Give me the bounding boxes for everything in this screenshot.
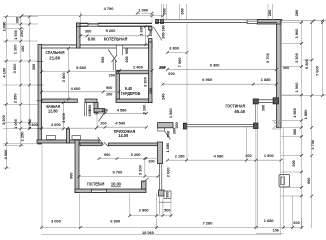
wall: right exterior	[277, 20, 282, 128]
svg-text:7 560: 7 560	[178, 57, 182, 67]
svg-text:СПАЛЬНАЯ: СПАЛЬНАЯ	[46, 50, 65, 55]
top-right dim line	[281, 20, 326, 22]
wall: bath north door jamb piece	[85, 99, 97, 103]
svg-text:2 000: 2 000	[166, 167, 170, 177]
svg-text:1 000: 1 000	[28, 119, 32, 129]
svg-text:200: 200	[159, 66, 165, 70]
door: bath entry	[99, 113, 105, 122]
svg-text:100: 100	[21, 46, 25, 52]
svg-text:4 000: 4 000	[51, 123, 61, 127]
step lines	[159, 201, 172, 203]
porch: entry step box right	[279, 175, 290, 188]
wall: living-room top thin double line	[156, 19, 278, 21]
svg-text:4 600: 4 600	[71, 87, 81, 91]
window: boiler room top	[88, 22, 98, 27]
dim line: 4600 row	[42, 91, 120, 93]
door partition: corridor closet	[112, 60, 114, 70]
svg-text:2 350: 2 350	[14, 94, 18, 104]
wall: boiler-room left exterior	[77, 23, 81, 48]
svg-text:200: 200	[100, 122, 106, 126]
window: living room top	[247, 20, 258, 24]
svg-text:4 790: 4 790	[104, 7, 114, 11]
svg-text:1 930: 1 930	[14, 30, 18, 40]
wall: bath/wardrobe north	[42, 99, 78, 103]
door jamb: hallway east	[158, 128, 165, 131]
wall: bath south exterior	[37, 140, 99, 143]
extension line x97 hallway west	[96, 104, 98, 128]
dim line: bath height 3600	[62, 103, 64, 129]
door: guest east	[143, 178, 149, 182]
svg-text:200: 200	[175, 122, 179, 128]
svg-text:600: 600	[88, 110, 92, 116]
dim line: hallway 4590	[97, 126, 147, 128]
wall: boiler-room top-left corner	[77, 23, 81, 27]
svg-text:3 300: 3 300	[143, 77, 147, 87]
svg-text:3 190: 3 190	[143, 105, 147, 115]
svg-text:ГАРДЕРОБ: ГАРДЕРОБ	[121, 91, 140, 96]
svg-text:2 800: 2 800	[139, 209, 149, 213]
svg-text:4 080: 4 080	[214, 154, 224, 158]
svg-text:2 180: 2 180	[175, 154, 185, 158]
svg-text:8.00: 8.00	[88, 37, 96, 42]
svg-text:3 300: 3 300	[138, 165, 142, 175]
svg-text:950: 950	[101, 57, 105, 63]
svg-text:ГОСТЕВАЯ: ГОСТЕВАЯ	[87, 181, 105, 186]
step box near guest SE	[164, 191, 171, 199]
svg-text:4 190: 4 190	[2, 68, 6, 78]
dim line: boiler 5200	[81, 35, 149, 37]
svg-text:900: 900	[167, 131, 171, 137]
svg-text:900: 900	[69, 173, 73, 179]
dim line: guest 900/3200	[99, 158, 158, 160]
fixture: bath WC	[47, 136, 56, 140]
svg-text:360: 360	[162, 8, 166, 14]
svg-text:12.80: 12.80	[48, 108, 58, 113]
svg-text:380: 380	[15, 17, 19, 23]
window: guest east thin double line	[159, 164, 161, 191]
bottom dim row total	[41, 234, 281, 236]
svg-text:900: 900	[106, 86, 112, 90]
lintel: living room east niche	[258, 99, 274, 101]
wall: hallway south	[109, 143, 161, 146]
bottom ext lines	[41, 145, 43, 229]
svg-text:10.00: 10.00	[111, 181, 121, 186]
bottom dim row 2800/500	[130, 215, 172, 217]
dim line: bedroom width 5680	[42, 71, 120, 73]
svg-text:1 000: 1 000	[14, 119, 18, 129]
svg-text:3 200: 3 200	[131, 153, 141, 157]
svg-text:4 580: 4 580	[117, 108, 127, 112]
svg-text:3 750: 3 750	[311, 140, 315, 150]
dim line: living 6960	[163, 83, 277, 85]
left margin chain lines	[5, 17, 7, 168]
svg-text:900: 900	[125, 48, 129, 54]
svg-text:9 700: 9 700	[113, 170, 123, 174]
svg-text:9 300: 9 300	[210, 63, 220, 67]
svg-text:3 060: 3 060	[4, 150, 8, 160]
beam: hallway to living room opening	[187, 124, 255, 126]
svg-text:3 300: 3 300	[295, 53, 299, 63]
svg-text:200: 200	[172, 128, 176, 134]
wall: top-right post b	[161, 20, 164, 24]
wall: small stub right of bath door	[94, 103, 98, 114]
wall: hallway SE corner	[158, 142, 163, 164]
svg-text:1 560: 1 560	[293, 108, 297, 118]
post niche left	[253, 99, 258, 104]
wall: boiler-room right lower	[149, 39, 153, 49]
wall: boiler-room right	[149, 27, 153, 31]
svg-text:6 960: 6 960	[202, 78, 212, 82]
wall: wardrobe north	[116, 70, 152, 74]
svg-text:300: 300	[245, 154, 251, 158]
svg-text:3 300: 3 300	[2, 115, 6, 125]
dim line: living 3800	[168, 52, 188, 54]
column at beam west	[183, 123, 187, 129]
wall: top-right pier right	[257, 20, 281, 25]
svg-text:1 630: 1 630	[139, 26, 143, 36]
column at beam east	[254, 123, 259, 129]
wall: top-right post a	[156, 20, 159, 24]
svg-text:21.80: 21.80	[49, 55, 60, 60]
window: bath left wall sill marks	[37, 100, 44, 102]
wall: guest west exterior	[75, 140, 79, 193]
svg-text:1 880: 1 880	[304, 110, 308, 120]
svg-text:156: 156	[273, 229, 279, 233]
extension line x187 long	[186, 24, 188, 162]
wall: guest east stub	[142, 181, 147, 189]
dim line: mid row	[168, 159, 282, 161]
svg-text:600: 600	[293, 221, 299, 225]
svg-text:1 900: 1 900	[138, 9, 148, 13]
wall: bath inner partition	[67, 129, 70, 143]
bottom dim row main	[41, 226, 302, 228]
svg-text:200: 200	[149, 30, 153, 36]
dim line: hallway 4580	[97, 112, 147, 114]
svg-text:300: 300	[125, 56, 129, 62]
svg-text:300: 300	[161, 32, 165, 38]
svg-text:1 880: 1 880	[261, 78, 271, 82]
svg-text:300: 300	[31, 123, 37, 127]
wall: wardrobe south	[116, 99, 152, 103]
left margin tick rows	[3, 16, 38, 18]
svg-text:380: 380	[293, 129, 297, 135]
line: niche post down	[255, 104, 257, 123]
svg-text:500: 500	[164, 209, 170, 213]
svg-text:1 980: 1 980	[2, 22, 6, 32]
svg-text:1 900: 1 900	[264, 154, 274, 158]
svg-text:180: 180	[161, 25, 165, 31]
svg-text:6 900: 6 900	[110, 219, 120, 223]
svg-text:3 000: 3 000	[51, 219, 61, 223]
svg-text:900: 900	[104, 153, 110, 157]
wall: step end block	[159, 190, 165, 196]
svg-text:5 200: 5 200	[106, 29, 116, 33]
dim line: wardrobe 2400	[120, 70, 153, 72]
wall: boiler-room top exterior double	[80, 22, 152, 24]
svg-text:200: 200	[149, 88, 153, 94]
wall: bedroom/boiler south double-line wall	[38, 44, 152, 46]
svg-text:1 250: 1 250	[20, 132, 24, 142]
door: bedroom/corridor to boiler diag	[108, 50, 117, 63]
svg-text:300: 300	[165, 192, 169, 198]
fixture: bath sink	[72, 136, 81, 140]
extension line x246.5	[246, 127, 248, 160]
post niche right	[273, 98, 278, 104]
svg-text:300: 300	[148, 160, 154, 164]
svg-text:100: 100	[106, 92, 112, 96]
svg-text:1 100: 1 100	[14, 45, 18, 55]
hatch: wall corner below beam	[273, 121, 282, 130]
svg-text:1 680: 1 680	[166, 143, 170, 153]
wall: guest north left piece	[80, 143, 102, 146]
svg-text:300: 300	[85, 29, 91, 33]
svg-text:280: 280	[295, 10, 299, 16]
dim line: bedroom height	[68, 48, 70, 99]
svg-text:6 800: 6 800	[305, 59, 309, 69]
wall: stub toward hallway	[94, 109, 105, 113]
svg-text:1 800: 1 800	[295, 29, 299, 39]
top ext lines	[80, 12, 82, 23]
wall: hallway NE piece	[158, 123, 173, 128]
svg-text:1 680: 1 680	[264, 219, 274, 223]
svg-text:КОТЕЛЬНАЯ: КОТЕЛЬНАЯ	[104, 37, 128, 42]
svg-text:2 400: 2 400	[133, 65, 143, 69]
svg-text:1 900: 1 900	[295, 83, 299, 93]
dim vline boiler right	[144, 27, 146, 45]
wall: wardrobe west	[116, 74, 120, 99]
svg-text:3 800: 3 800	[169, 46, 179, 50]
svg-text:18 060: 18 060	[142, 231, 154, 235]
svg-text:200: 200	[102, 108, 108, 112]
dim line: bath width 4000	[42, 127, 97, 129]
door: boiler room east	[154, 27, 163, 41]
svg-text:300: 300	[261, 105, 265, 111]
wall: wardrobe east	[149, 42, 153, 103]
svg-text:4 590: 4 590	[115, 122, 125, 126]
svg-text:1 560: 1 560	[169, 108, 173, 118]
svg-text:300: 300	[32, 64, 36, 70]
svg-text:3 600: 3 600	[13, 64, 17, 74]
right margin chain lines	[300, 21, 302, 228]
door: hallway to living	[165, 131, 171, 139]
door: guest room	[104, 142, 109, 147]
svg-text:240: 240	[161, 94, 165, 100]
svg-text:290: 290	[20, 30, 24, 36]
svg-text:7 280: 7 280	[203, 221, 213, 225]
wall: guest south exterior	[75, 189, 146, 193]
svg-text:280: 280	[268, 10, 272, 16]
right margin tick rows	[281, 22, 303, 24]
window: guest room south	[92, 189, 107, 193]
top dim line 4790/1900	[22, 15, 163, 17]
wall: left exterior	[38, 45, 42, 145]
window: bedroom left wall sill marks	[37, 61, 44, 63]
svg-text:ГОСТИНАЯ: ГОСТИНАЯ	[225, 103, 245, 108]
svg-text:65.40: 65.40	[235, 109, 246, 114]
svg-text:14.00: 14.00	[118, 133, 128, 138]
svg-text:600: 600	[168, 72, 174, 76]
dim vline guest 3300	[144, 159, 146, 177]
svg-text:3 600: 3 600	[62, 113, 66, 123]
partition: bath inner thin	[84, 103, 86, 117]
dim line: guest 9700	[79, 175, 158, 177]
svg-text:7 600: 7 600	[315, 66, 319, 76]
svg-text:3 500: 3 500	[62, 72, 66, 82]
svg-text:300: 300	[181, 8, 185, 14]
svg-text:900: 900	[307, 178, 311, 184]
svg-text:200: 200	[109, 74, 115, 78]
svg-text:5 680: 5 680	[76, 66, 86, 70]
door: boiler room south	[116, 45, 118, 55]
svg-text:5 700: 5 700	[266, 53, 270, 63]
svg-text:300: 300	[292, 160, 296, 166]
dim line: living 9300	[168, 68, 277, 70]
